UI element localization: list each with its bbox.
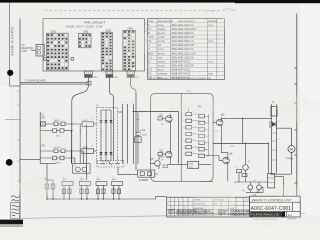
wire: mid bus — [213, 118, 268, 173]
svg-text:F1: F1 — [42, 116, 46, 120]
terminal box TB3 — [268, 174, 275, 188]
svg-text:F FAN: F FAN — [286, 157, 293, 160]
svg-text:CN3: CN3 — [106, 28, 112, 32]
connector J1 — [85, 71, 98, 79]
svg-text:RELAY: RELAY — [158, 52, 166, 55]
wire: motor feed — [270, 121, 292, 174]
wire: DC bus columns — [118, 104, 134, 164]
transformer T1 — [73, 164, 91, 174]
amplifier cell A3 — [96, 179, 107, 199]
svg-text:M: M — [290, 148, 293, 152]
svg-text:CN1: CN1 — [51, 29, 57, 33]
svg-text:100V: 100V — [208, 41, 214, 43]
diode D1 — [272, 122, 276, 127]
svg-text:Q: Q — [148, 61, 150, 63]
amplifier cell A4 — [112, 179, 123, 199]
node G2 (ground lug right of CN1) — [71, 57, 74, 60]
svg-text:DWG 1/1: DWG 1/1 — [288, 219, 297, 221]
transistor Q5 — [150, 157, 167, 169]
connector J3 — [127, 71, 140, 79]
amplifier cell A1 — [62, 179, 73, 199]
manufacturer logo block — [250, 212, 292, 217]
thermostat TH1 — [97, 161, 124, 167]
svg-text:THERMO: THERMO — [158, 74, 168, 76]
svg-text:+15V: +15V — [188, 163, 193, 165]
svg-text:DIODE: DIODE — [158, 65, 165, 67]
svg-text:FAN CIRCUIT: FAN CIRCUIT — [84, 20, 106, 24]
wire: J3 to fuse F3 — [131, 77, 136, 170]
svg-text:RECT: RECT — [158, 69, 165, 71]
connector pin table CN1 — [46, 29, 68, 70]
svg-text:FUSE: FUSE — [158, 25, 164, 27]
svg-text:TO MAIN BOARD: TO MAIN BOARD — [25, 79, 46, 82]
wire: Q3 collector to terminal strip — [221, 118, 271, 156]
value labels — [63, 102, 280, 182]
contactor MCC contacts upper — [40, 120, 82, 137]
connector J2 — [106, 71, 119, 79]
connector pin table CN3 — [101, 28, 112, 70]
relay K1 on fan box edge — [31, 45, 44, 56]
svg-text:4: 4 — [113, 176, 114, 178]
svg-text:A06B-6047-K101: A06B-6047-K101 — [171, 60, 191, 63]
svg-text:3: 3 — [125, 172, 126, 174]
revision table — [167, 197, 251, 217]
svg-text:TRANS: TRANS — [158, 28, 166, 31]
svg-text:4K7: 4K7 — [161, 124, 164, 126]
svg-text:A06B-6047-K101: A06B-6047-K101 — [171, 73, 191, 76]
amplifier cell A2 — [80, 179, 91, 199]
resistor network R10-R25 — [183, 108, 208, 158]
svg-text:3: 3 — [132, 102, 133, 104]
transistor Q1 — [158, 113, 172, 124]
sheet note — [253, 218, 297, 221]
svg-text:2-8 r​: 2-8 r​ — [206, 10, 219, 14]
svg-text:A06B-6047-K101: A06B-6047-K101 — [171, 68, 191, 71]
transistor Q6 — [237, 144, 249, 183]
svg-text:CN1: CN1 — [93, 77, 98, 79]
contactor MCC contacts lower — [40, 147, 82, 164]
driver board outline — [151, 90, 214, 182]
svg-text:( 7 ): ( 7 ) — [187, 90, 191, 93]
wire: left supply rail — [20, 111, 139, 164]
svg-text:74924: 74924 — [167, 210, 175, 214]
svg-text:4K7: 4K7 — [161, 159, 164, 161]
driver stage A0 — [40, 164, 56, 199]
svg-text:4: 4 — [279, 139, 280, 141]
wire: bus to Q1 collector — [133, 112, 178, 164]
svg-text:F 5AMP: F 5AMP — [139, 179, 148, 182]
transistor Q2 — [158, 149, 172, 160]
capacitor C2 — [248, 182, 253, 193]
svg-text:MCC: MCC — [56, 162, 61, 164]
fan circuit enclosure box — [43, 19, 145, 71]
fuse F3 — [118, 167, 158, 182]
svg-text:CN4: CN4 — [127, 27, 133, 31]
fuse F1 — [41, 112, 46, 126]
svg-text:1: 1 — [121, 102, 122, 104]
wire: to main board pair — [20, 79, 91, 85]
wire: to title area — [275, 177, 284, 196]
svg-text:RESIST: RESIST — [158, 33, 167, 35]
svg-text:D S: D S — [148, 69, 152, 71]
svg-text:2: 2 — [126, 102, 127, 104]
wire: Q1-Q2 link — [170, 125, 172, 164]
svg-text:MCC1: MCC1 — [54, 120, 61, 122]
svg-text:CONN: CONN — [158, 37, 165, 39]
rectifier bridge DS1 — [97, 108, 118, 164]
terminal strip TB2 — [271, 101, 277, 174]
svg-text:M68638W2634: M68638W2634 — [230, 212, 251, 216]
svg-text:FILTER: FILTER — [158, 41, 166, 43]
svg-text:CN2: CN2 — [83, 30, 89, 34]
note: to reactor unit — [22, 44, 34, 53]
capacitor C3 — [253, 182, 261, 197]
svg-text:TRSTR: TRSTR — [158, 61, 166, 63]
svg-text:100V: 100V — [208, 74, 214, 76]
specification table — [148, 19, 225, 80]
svg-text:A50L-2001-0220 2A: A50L-2001-0220 2A — [171, 64, 194, 67]
svg-text:A06B-4-23459: A06B-4-23459 — [10, 26, 15, 56]
wire: J1 to transformer — [72, 77, 89, 163]
svg-text:TH: TH — [148, 74, 151, 76]
svg-text:CONT: CONT — [158, 49, 165, 51]
svg-text:UNIT: UNIT — [22, 50, 28, 53]
svg-text:MCC: MCC — [148, 53, 154, 55]
title block — [250, 196, 301, 217]
connector pin table CN4 — [123, 27, 135, 71]
node: amplifier cell bus junctions — [46, 198, 119, 199]
svg-text:CAP: CAP — [158, 56, 163, 59]
svg-text:A-1: A-1 — [288, 214, 292, 217]
wire: bottom return bus — [47, 197, 167, 199]
svg-text:-15V: -15V — [188, 166, 193, 168]
wire: Q4 base feed — [206, 156, 228, 182]
fan motor FM — [286, 128, 295, 174]
connector pin table CN2 — [78, 30, 91, 48]
svg-text:3: 3 — [97, 176, 98, 178]
svg-text:A06B-6047-C050 14W: A06B-6047-C050 14W — [66, 24, 103, 28]
resistor R2 — [82, 147, 97, 153]
capacitor C1 — [135, 112, 148, 164]
fuse F2 — [42, 143, 46, 147]
resistor R1 — [82, 120, 97, 126]
svg-text:4t: 4t — [242, 189, 245, 193]
voltage regulator VR1 — [167, 161, 211, 168]
node G1 (ground lug left of CN1) — [43, 57, 46, 60]
svg-text:+ C1: + C1 — [140, 129, 146, 132]
wire: J2 to thermostat — [109, 77, 113, 160]
svg-text:R56: R56 — [230, 146, 233, 148]
svg-text:A50L-2001-0220 2A: A50L-2001-0220 2A — [171, 56, 194, 59]
transistor Q4 — [219, 152, 233, 166]
transistor Q3 — [213, 113, 225, 128]
svg-text:400V: 400V — [142, 134, 147, 136]
svg-text:Q6: Q6 — [247, 161, 250, 163]
svg-text:SYM: SYM — [148, 21, 153, 23]
wire: output bottom ties — [200, 181, 268, 192]
svg-text:NOTE: A06B-6047-C050 FAN UNIT: NOTE: A06B-6047-C050 FAN UNIT AC100V 50/… — [149, 77, 212, 80]
wire: drop columns to transformer — [71, 124, 86, 180]
